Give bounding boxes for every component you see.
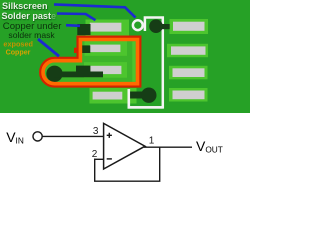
- output wire: [144, 146, 192, 148]
- red copper stub at pad L2 row: [74, 48, 79, 53]
- plus sign (non-inverting input): [107, 133, 112, 138]
- PCB green background: [0, 0, 250, 113]
- wire pin 2: [95, 158, 104, 160]
- trace from through-hole pad to pad L3: [55, 72, 104, 78]
- silkscreen pin-1 ring: [133, 20, 143, 30]
- svg-text:solder mask: solder mask: [8, 30, 55, 40]
- arrow for exposed Copper: [38, 39, 59, 56]
- dark copper block at pad L1 (copper under solder mask): [77, 24, 90, 35]
- pad L2: [85, 41, 128, 56]
- pad R3: [169, 66, 208, 80]
- svg-text:3: 3: [93, 126, 99, 137]
- pad L3: [84, 62, 127, 78]
- bright solder-mask rim inside highlight right edge: [132, 41, 135, 82]
- svg-text:exposed: exposed: [3, 40, 33, 49]
- silkscreen IC outline (white): [129, 18, 163, 108]
- svg-text:2: 2: [92, 149, 98, 160]
- white silk bottom-left redraw (over trace): [129, 89, 163, 107]
- dark copper block at pad L2: [81, 45, 90, 53]
- svg-text:Solder paste: Solder paste: [2, 11, 57, 21]
- dark copper block at pad L3: [76, 66, 90, 73]
- arrow for Silkscreen: [54, 4, 136, 17]
- feedback wire: [95, 147, 160, 181]
- pad R2: [167, 44, 208, 57]
- pad L1: [86, 20, 130, 36]
- highlighted net region (bright green fill inside orange outline): [43, 40, 137, 84]
- net highlight outline: orange inner: [43, 40, 137, 84]
- minus sign (inverting input): [107, 158, 112, 160]
- op-amp U1 triangle: [104, 123, 145, 169]
- svg-text:1: 1: [149, 136, 155, 147]
- top via pad (dark) with trace to pad R1: [156, 24, 170, 29]
- through-hole pad (exposed copper circle): [46, 66, 62, 82]
- wire VIN to pin 3: [42, 135, 103, 137]
- arrow for Solder paste: [57, 14, 96, 21]
- pad R1: [170, 19, 209, 34]
- bottom via pad (dark) with trace from pad L4: [128, 92, 149, 99]
- node VIN terminal: [33, 132, 42, 141]
- arrow for Copper under solder mask: [66, 24, 80, 27]
- white page background: [0, 0, 250, 194]
- pad L4: [90, 88, 137, 104]
- svg-text:Copper: Copper: [6, 49, 31, 57]
- net highlight outline: red outer: [42, 38, 139, 85]
- svg-text:Silkscreen: Silkscreen: [2, 1, 48, 11]
- pad R4: [169, 88, 208, 102]
